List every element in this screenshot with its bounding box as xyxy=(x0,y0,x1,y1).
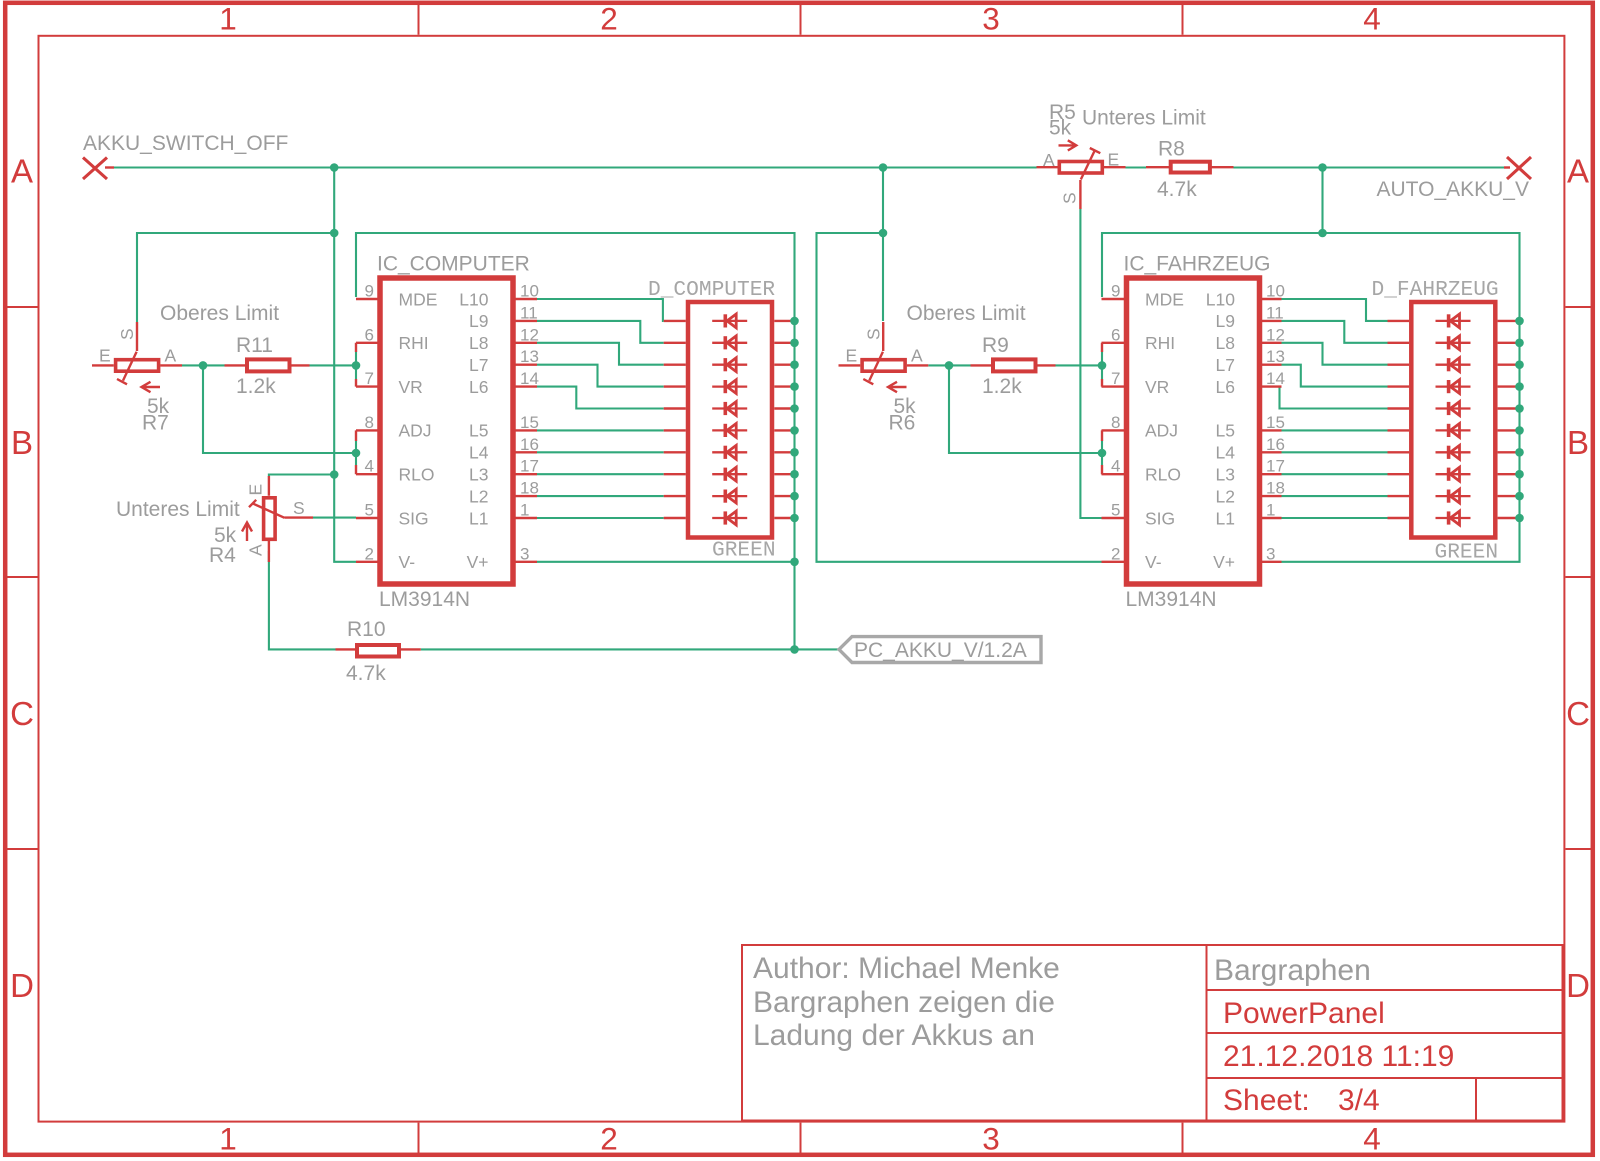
svg-text:D_FAHRZEUG: D_FAHRZEUG xyxy=(1372,278,1499,302)
junction ADJ/RLO circuit2 xyxy=(1098,449,1107,458)
svg-text:4.7k: 4.7k xyxy=(346,662,386,685)
svg-text:GREEN: GREEN xyxy=(712,539,776,563)
junction y233 x334 xyxy=(330,229,339,238)
svg-text:5: 5 xyxy=(365,501,374,520)
svg-text:L1: L1 xyxy=(469,508,488,528)
svg-text:11: 11 xyxy=(1266,303,1284,322)
svg-text:Oberes Limit: Oberes Limit xyxy=(907,302,1026,325)
svg-text:L3: L3 xyxy=(1216,465,1235,485)
svg-text:2: 2 xyxy=(600,1,618,37)
svg-text:IC_COMPUTER: IC_COMPUTER xyxy=(377,253,530,276)
junctions D_FAHRZEUG anode rail xyxy=(1515,317,1524,523)
wire R6 wiper to R9 xyxy=(928,364,970,366)
svg-text:21.12.2018 11:19: 21.12.2018 11:19 xyxy=(1223,1040,1454,1073)
svg-text:4: 4 xyxy=(365,457,374,476)
junction R4-E rail xyxy=(330,470,339,479)
svg-text:1: 1 xyxy=(1266,501,1275,520)
svg-text:L10: L10 xyxy=(1206,289,1235,309)
svg-text:18: 18 xyxy=(1266,479,1285,498)
svg-text:16: 16 xyxy=(520,435,539,454)
svg-text:L7: L7 xyxy=(1216,355,1235,375)
svg-text:16: 16 xyxy=(1266,435,1285,454)
svg-text:L6: L6 xyxy=(469,377,488,397)
svg-text:IC_FAHRZEUG: IC_FAHRZEUG xyxy=(1124,253,1271,276)
svg-text:7: 7 xyxy=(1111,369,1120,388)
svg-text:L1: L1 xyxy=(1216,508,1235,528)
svg-text:8: 8 xyxy=(1111,413,1120,432)
pin AKKU_SWITCH_OFF (X marker) xyxy=(83,158,114,180)
svg-text:Sheet:: Sheet: xyxy=(1223,1084,1310,1117)
svg-text:1.2k: 1.2k xyxy=(982,375,1022,398)
title block xyxy=(742,945,1563,1121)
svg-text:LM3914N: LM3914N xyxy=(1126,588,1217,611)
wires IC_COMPUTER L10-L6 to D_COMPUTER xyxy=(537,299,664,409)
svg-text:B: B xyxy=(11,424,33,461)
svg-text:L10: L10 xyxy=(459,289,488,309)
svg-text:2: 2 xyxy=(365,544,374,563)
svg-text:L5: L5 xyxy=(1216,421,1235,441)
junction ADJ/RLO circuit1 xyxy=(352,449,361,458)
svg-text:SIG: SIG xyxy=(1145,508,1175,528)
svg-text:3/4: 3/4 xyxy=(1338,1084,1380,1117)
wire main AKKU_SWITCH_OFF rail xyxy=(114,166,1504,168)
svg-text:11: 11 xyxy=(520,303,538,322)
svg-text:17: 17 xyxy=(1266,457,1285,476)
svg-text:D_COMPUTER: D_COMPUTER xyxy=(648,278,775,302)
svg-text:A: A xyxy=(11,153,33,190)
svg-text:L8: L8 xyxy=(469,333,488,353)
junction R10 rail xyxy=(790,645,799,654)
svg-text:R6: R6 xyxy=(889,412,916,435)
svg-text:L3: L3 xyxy=(469,465,488,485)
svg-text:5: 5 xyxy=(1111,501,1120,520)
svg-text:LM3914N: LM3914N xyxy=(379,588,470,611)
svg-text:D: D xyxy=(10,967,34,1004)
svg-text:L9: L9 xyxy=(469,311,488,331)
svg-text:Bargraphen: Bargraphen xyxy=(1214,954,1371,987)
svg-text:9: 9 xyxy=(365,282,374,301)
net flag PC_AKKU_V/1.2A xyxy=(839,637,1041,663)
svg-text:GREEN: GREEN xyxy=(1435,541,1499,565)
junction R6-R9 xyxy=(945,361,954,370)
svg-text:E: E xyxy=(246,484,266,496)
svg-text:12: 12 xyxy=(520,325,539,344)
svg-text:RLO: RLO xyxy=(1145,465,1181,485)
potentiometer R6 5k (Oberes Limit) xyxy=(839,322,929,435)
svg-text:Unteres Limit: Unteres Limit xyxy=(116,498,240,521)
wire R6 S drop xyxy=(882,233,884,321)
svg-text:Oberes Limit: Oberes Limit xyxy=(160,302,279,325)
svg-text:V-: V- xyxy=(399,552,416,572)
svg-text:1: 1 xyxy=(219,1121,237,1157)
net label Oberes Limit (circuit1) xyxy=(160,302,279,325)
junction main rail x1322 xyxy=(1318,163,1327,172)
svg-text:VR: VR xyxy=(399,377,423,397)
junction R7-R11 xyxy=(199,361,208,370)
LED bargraph D_COMPUTER xyxy=(648,278,793,563)
junction R11-RHI xyxy=(352,361,361,370)
wire R4 S to SIG xyxy=(313,517,356,519)
wire circuit1 MODE/V+/anode rail xyxy=(356,233,839,649)
svg-text:R7: R7 xyxy=(142,412,169,435)
net label AKKU_SWITCH_OFF xyxy=(83,132,288,155)
svg-text:L8: L8 xyxy=(1216,333,1235,353)
junction main rail x334 xyxy=(330,163,339,172)
resistor R8 4.7k xyxy=(1146,138,1234,202)
wire R11 to RHI/VR pins xyxy=(310,352,357,379)
svg-text:R9: R9 xyxy=(982,334,1009,357)
svg-text:3: 3 xyxy=(982,1121,1000,1157)
net label Unteres Limit (circuit1) xyxy=(116,498,240,521)
svg-text:10: 10 xyxy=(520,282,539,301)
junction main rail x883 xyxy=(879,163,888,172)
svg-text:1: 1 xyxy=(219,1,237,37)
svg-text:E: E xyxy=(1108,150,1120,170)
junction y233 x883 xyxy=(879,229,888,238)
wire circuit2 V- bracket xyxy=(817,233,1102,562)
wire R4 A to R10 xyxy=(269,551,336,649)
resistor R9 1.2k xyxy=(971,334,1056,398)
svg-text:S: S xyxy=(117,328,137,340)
svg-text:R8: R8 xyxy=(1158,138,1185,161)
svg-text:L6: L6 xyxy=(1216,377,1235,397)
pin AUTO_AKKU_V (X marker) xyxy=(1504,157,1531,179)
wires IC_FAHRZEUG L5-L1 to D_FAHRZEUG xyxy=(1282,430,1388,518)
op-amp IC_COMPUTER LM3914N xyxy=(356,253,539,612)
potentiometer R5 5k (Unteres Limit) xyxy=(1037,101,1126,209)
svg-text:R10: R10 xyxy=(347,618,386,641)
svg-text:V+: V+ xyxy=(467,552,489,572)
svg-text:L5: L5 xyxy=(469,421,488,441)
wire R5 S to SIG xyxy=(1080,209,1101,518)
svg-text:6: 6 xyxy=(365,325,374,344)
junctions D_COMPUTER anode rail xyxy=(790,317,799,523)
svg-text:5k: 5k xyxy=(1049,117,1072,140)
svg-text:ADJ: ADJ xyxy=(1145,421,1178,441)
svg-text:6: 6 xyxy=(1111,325,1120,344)
svg-text:D: D xyxy=(1566,967,1590,1004)
svg-text:2: 2 xyxy=(600,1121,618,1157)
svg-text:C: C xyxy=(10,695,34,732)
svg-text:15: 15 xyxy=(1266,413,1285,432)
svg-text:S: S xyxy=(1060,192,1080,204)
svg-text:3: 3 xyxy=(520,544,529,563)
net label Unteres Limit (circuit2) xyxy=(1082,107,1206,130)
svg-text:L9: L9 xyxy=(1216,311,1235,331)
svg-text:4: 4 xyxy=(1363,1,1381,37)
svg-text:7: 7 xyxy=(365,369,374,388)
svg-text:E: E xyxy=(846,346,858,366)
svg-text:10: 10 xyxy=(1266,282,1285,301)
wire node ADJ/RLO circuit2 xyxy=(949,365,1102,465)
svg-text:3: 3 xyxy=(982,1,1000,37)
net label AUTO_AKKU_V xyxy=(1376,178,1529,201)
svg-text:L4: L4 xyxy=(469,443,489,463)
svg-text:Author: Michael Menke: Author: Michael Menke xyxy=(753,952,1060,985)
svg-text:PowerPanel: PowerPanel xyxy=(1223,997,1385,1030)
wire R8 to circuit2 anode rail xyxy=(1321,168,1323,234)
resistor R11 1.2k xyxy=(225,334,310,398)
svg-text:MDE: MDE xyxy=(399,289,438,309)
svg-text:L4: L4 xyxy=(1216,443,1236,463)
potentiometer R7 5k (Oberes Limit) xyxy=(92,322,182,435)
svg-text:14: 14 xyxy=(520,369,539,388)
svg-text:9: 9 xyxy=(1111,282,1120,301)
net label Oberes Limit (circuit2) xyxy=(907,302,1026,325)
svg-text:4.7k: 4.7k xyxy=(1157,178,1197,201)
svg-text:AKKU_SWITCH_OFF: AKKU_SWITCH_OFF xyxy=(83,132,288,155)
svg-text:4: 4 xyxy=(1363,1121,1381,1157)
svg-text:3: 3 xyxy=(1266,544,1275,563)
junction V+ rail circuit1 xyxy=(790,558,799,567)
wire node ADJ/RLO to R7 junction xyxy=(203,365,356,465)
wire R9 to RHI/VR pins xyxy=(1056,352,1103,379)
svg-text:A: A xyxy=(1567,153,1589,190)
wire R7 wiper to R11 xyxy=(182,364,225,366)
svg-text:RHI: RHI xyxy=(399,333,429,353)
svg-text:R4: R4 xyxy=(209,544,236,567)
svg-text:A: A xyxy=(165,346,177,366)
junction y233 x1322 xyxy=(1318,229,1327,238)
svg-text:RHI: RHI xyxy=(1145,333,1175,353)
resistor R10 4.7k xyxy=(336,618,421,685)
potentiometer R4 5k (Unteres Limit) xyxy=(209,476,313,567)
svg-text:E: E xyxy=(99,346,111,366)
LED bargraph D_FAHRZEUG xyxy=(1372,278,1518,565)
svg-text:S: S xyxy=(293,498,305,518)
svg-text:AUTO_AKKU_V: AUTO_AKKU_V xyxy=(1376,178,1529,201)
svg-text:Ladung der Akkus an: Ladung der Akkus an xyxy=(753,1019,1035,1052)
junction R9-RHI xyxy=(1098,361,1107,370)
wire circuit2 MODE/V+/anode rail xyxy=(1102,233,1520,562)
wire R4 E to RLO rail xyxy=(269,475,334,477)
svg-text:L7: L7 xyxy=(469,355,488,375)
svg-text:12: 12 xyxy=(1266,325,1285,344)
svg-text:SIG: SIG xyxy=(399,508,429,528)
svg-text:18: 18 xyxy=(520,479,539,498)
svg-text:8: 8 xyxy=(365,413,374,432)
svg-text:VR: VR xyxy=(1145,377,1169,397)
svg-text:PC_AKKU_V/1.2A: PC_AKKU_V/1.2A xyxy=(854,639,1027,662)
svg-text:B: B xyxy=(1567,424,1589,461)
svg-text:1: 1 xyxy=(520,501,529,520)
svg-text:V-: V- xyxy=(1145,552,1162,572)
op-amp IC_FAHRZEUG LM3914N xyxy=(1102,253,1285,612)
wire main rail to circuit2 bracket xyxy=(882,168,884,234)
svg-text:4: 4 xyxy=(1111,457,1120,476)
svg-text:1.2k: 1.2k xyxy=(236,375,276,398)
svg-text:Bargraphen zeigen die: Bargraphen zeigen die xyxy=(753,986,1055,1019)
svg-text:14: 14 xyxy=(1266,369,1285,388)
svg-text:A: A xyxy=(911,346,923,366)
svg-text:A: A xyxy=(246,544,266,556)
svg-text:Unteres Limit: Unteres Limit xyxy=(1082,107,1206,130)
svg-text:RLO: RLO xyxy=(399,465,435,485)
svg-text:15: 15 xyxy=(520,413,539,432)
svg-text:S: S xyxy=(864,328,884,340)
svg-text:13: 13 xyxy=(520,347,539,366)
svg-text:A: A xyxy=(1043,150,1055,170)
svg-text:13: 13 xyxy=(1266,347,1285,366)
wire circuit1 V- bracket (main rail to V- pin and R7 S) xyxy=(137,168,356,562)
svg-text:17: 17 xyxy=(520,457,539,476)
svg-text:V+: V+ xyxy=(1213,552,1235,572)
svg-text:C: C xyxy=(1566,695,1590,732)
svg-text:MDE: MDE xyxy=(1145,289,1184,309)
svg-text:L2: L2 xyxy=(1216,486,1235,506)
svg-text:L2: L2 xyxy=(469,486,488,506)
wires IC_FAHRZEUG L10-L6 to D_FAHRZEUG xyxy=(1280,299,1388,409)
svg-text:R11: R11 xyxy=(236,334,273,357)
svg-text:2: 2 xyxy=(1111,544,1120,563)
wires IC_COMPUTER L5-L1 to D_COMPUTER xyxy=(537,430,664,518)
svg-text:ADJ: ADJ xyxy=(399,421,432,441)
